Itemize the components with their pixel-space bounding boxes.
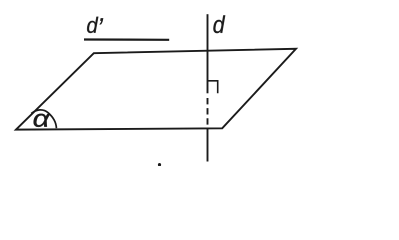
- line d' segment: [84, 38, 169, 40]
- line d upper solid segment: [207, 14, 209, 93]
- label d: [213, 15, 225, 33]
- label alpha: [34, 114, 51, 127]
- label d' prime: [99, 18, 103, 24]
- line d lower solid segment: [207, 128, 209, 161]
- right angle mark: [208, 81, 218, 93]
- line d hidden dashed segment: [207, 98, 209, 128]
- angle arc: [31, 110, 56, 128]
- stray speck: [158, 163, 161, 167]
- label d' letter: [87, 17, 98, 33]
- plane (parallelogram): [16, 49, 296, 130]
